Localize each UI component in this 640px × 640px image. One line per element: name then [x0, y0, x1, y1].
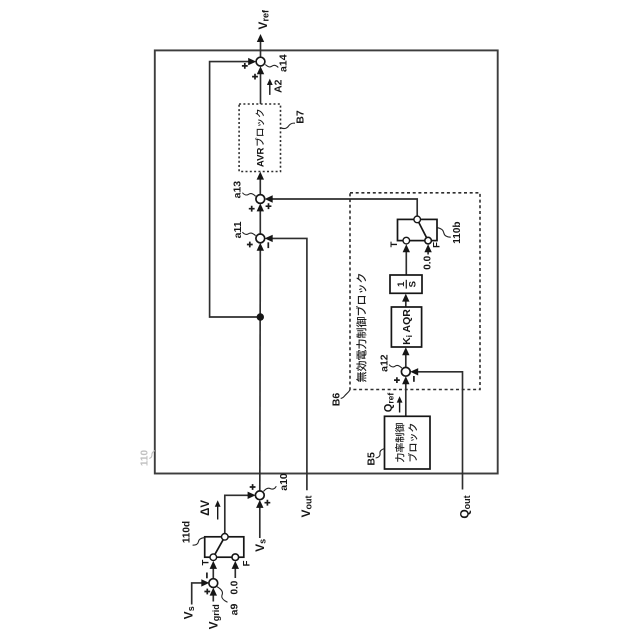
svg-text:a14: a14: [278, 54, 290, 72]
svg-text:B7: B7: [295, 110, 307, 124]
node Qout: [458, 495, 473, 518]
label a12: [379, 354, 402, 372]
svg-text:a9: a9: [229, 604, 241, 616]
svg-text:B5: B5: [365, 452, 377, 466]
wire Vs input to a10: [256, 500, 263, 538]
node Qref (signal label with arrow): [382, 393, 402, 413]
wire Vref output from a14: [257, 34, 264, 57]
label 110 (faint): [140, 449, 155, 466]
svg-text:110d: 110d: [181, 521, 192, 543]
wire Vs input to a9: [192, 579, 210, 604]
integrator block 1/S: [390, 275, 422, 293]
wire a9 to T input of 110d: [210, 561, 217, 579]
label 110b: [437, 221, 463, 243]
switch 110d: [205, 534, 244, 561]
gain block Ki AQR: [391, 307, 421, 347]
summing junction a11: [247, 234, 268, 248]
svg-text:F: F: [431, 242, 442, 248]
value 0.0 (110b F input): [423, 255, 434, 269]
wire B5 output (Qref) to a12: [402, 376, 409, 416]
svg-text:T: T: [389, 241, 400, 247]
label B6: [331, 390, 350, 406]
label B5: [365, 449, 384, 466]
node Vout: [299, 495, 314, 517]
svg-text:F: F: [241, 560, 252, 566]
svg-text:ΔV: ΔV: [200, 500, 212, 516]
system boundary box 110: [155, 50, 498, 473]
svg-text:a13: a13: [232, 181, 244, 199]
pin T (110b): [389, 241, 400, 247]
wire 1/S output to T input of 110b: [403, 244, 410, 274]
reactive power control block B6 (dashed): [350, 193, 480, 390]
svg-text:110: 110: [140, 449, 151, 466]
wire a13 to AVR block: [257, 172, 264, 195]
value 0.0 (110d F input): [230, 580, 241, 594]
svg-text:a10: a10: [278, 473, 290, 491]
wire 110b output to a13: [265, 195, 418, 216]
summing junction a9: [204, 573, 217, 595]
summing junction a14: [242, 57, 265, 79]
label 110d: [181, 521, 204, 545]
svg-text:a11: a11: [232, 221, 244, 238]
svg-text:A2: A2: [273, 79, 285, 93]
summing junction a13: [249, 195, 272, 212]
svg-text:S: S: [407, 281, 418, 287]
node Vgrid: [207, 604, 222, 629]
svg-text:B6: B6: [331, 393, 343, 407]
svg-text:110b: 110b: [452, 221, 463, 243]
wire 0.0 to F input of 110d: [232, 561, 239, 578]
wire Vgrid input to a9: [210, 588, 217, 602]
node Vs (at a10): [253, 539, 268, 552]
svg-text:Ki AQR: Ki AQR: [401, 309, 414, 345]
wire a12 to Ki AQR: [402, 347, 409, 367]
wire feedback from node to a14: [210, 58, 261, 317]
pin F (110b): [431, 242, 442, 248]
label a9: [217, 587, 241, 616]
AVR block B7 (dashed): [239, 104, 280, 172]
label a11: [232, 221, 256, 238]
svg-text:a12: a12: [379, 354, 391, 372]
wire a10 output to a11: [257, 243, 264, 491]
label a13: [232, 181, 256, 199]
svg-text:0.0: 0.0: [423, 255, 434, 269]
label a14: [265, 54, 289, 72]
summing junction a10: [250, 484, 271, 506]
node delta-V (signal label with arrow): [200, 500, 221, 520]
svg-text:0.0: 0.0: [230, 580, 241, 594]
label B7: [281, 110, 307, 128]
node Vref: [256, 9, 271, 30]
pin T (110d): [200, 560, 211, 566]
node Vs (at a9): [181, 606, 196, 619]
svg-text:T: T: [200, 560, 211, 566]
svg-text:1: 1: [396, 281, 407, 287]
switch 110b: [398, 216, 438, 244]
wire Qout feedback to a12: [410, 368, 462, 489]
summing junction a12: [394, 367, 414, 383]
power factor control block B5: [385, 416, 431, 469]
wire Ki AQR to 1/S: [402, 294, 409, 307]
node A2 (signal label with vector arrow): [267, 79, 285, 95]
junction node on main line: [257, 313, 264, 320]
pin F (110d): [241, 560, 252, 566]
wire a11 to a13: [257, 203, 264, 234]
wire Vout input to a11: [265, 235, 307, 491]
svg-text:AVR: AVR: [255, 147, 266, 167]
wire delta-V from 110d to a10: [225, 492, 256, 534]
wire 0.0 to F input of 110b: [424, 244, 431, 254]
wire AVR output to a14 with A2 signal: [257, 66, 264, 104]
label a10: [264, 473, 290, 491]
